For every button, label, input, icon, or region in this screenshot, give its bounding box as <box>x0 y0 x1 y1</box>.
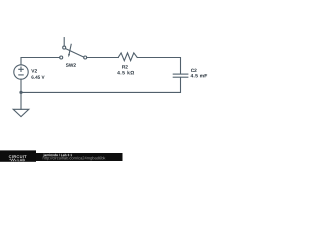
wire top-left from source to switch <box>21 58 60 65</box>
switch SW2 upper terminal circle <box>63 46 66 49</box>
svg-text:http://circuitlab.com/ca24mgba: http://circuitlab.com/ca24mgbad6bk <box>42 155 105 160</box>
svg-text:4.5 mF: 4.5 mF <box>191 73 208 79</box>
watermark strip <box>36 153 123 161</box>
switch SW2 blade <box>66 49 84 58</box>
wire switch to resistor <box>87 57 119 59</box>
resistor R2 zigzag <box>118 53 137 61</box>
ground symbol <box>13 109 29 116</box>
svg-text:4.5 kΩ: 4.5 kΩ <box>117 70 135 76</box>
wire capacitor bottom down and along bottom to junction <box>21 77 181 92</box>
svg-text:V2: V2 <box>31 68 37 74</box>
watermark logo badge <box>0 150 36 161</box>
V2 minus sign <box>19 74 23 76</box>
voltage source V2 circle <box>14 65 28 79</box>
switch SW2 upper stub wire <box>63 38 65 46</box>
V2 plus sign <box>19 67 23 71</box>
svg-text:LAB: LAB <box>17 158 25 162</box>
wire source bottom to ground <box>20 79 22 109</box>
svg-text:SW2: SW2 <box>66 63 77 69</box>
svg-text:6.45 V: 6.45 V <box>31 75 45 80</box>
switch SW2 right terminal circle <box>84 56 87 59</box>
capacitor C2 bottom plate <box>173 76 189 78</box>
logo zigzag <box>9 159 16 161</box>
junction node dot <box>19 91 22 94</box>
wire resistor to top-right corner and down to capacitor <box>137 58 180 74</box>
switch SW2 actuator arrowhead <box>68 54 70 58</box>
capacitor C2 top plate <box>173 73 189 75</box>
switch SW2 actuator arrow shaft <box>69 44 71 54</box>
switch SW2 left terminal circle <box>60 56 63 59</box>
